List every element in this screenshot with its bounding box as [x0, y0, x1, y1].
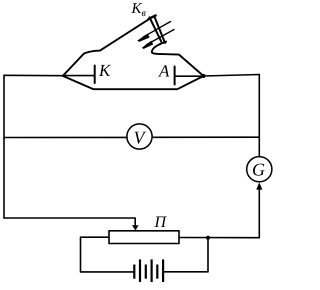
phototube envelope top-left edge	[63, 19, 149, 75]
battery plate tall 1	[139, 259, 141, 282]
electrode A lead	[175, 75, 203, 77]
wire battery left loop	[81, 237, 134, 272]
wire right vertical upper	[258, 75, 260, 157]
electrode K lead	[64, 75, 94, 77]
battery plate short 1	[133, 265, 135, 279]
svg-text:Кв: Кв	[131, 1, 147, 19]
voltmeter V circle	[127, 124, 152, 149]
junction dot bottom-right	[206, 236, 210, 240]
light ray arrowhead 2	[142, 41, 153, 49]
battery plate tall 3	[162, 259, 164, 282]
potentiometer body rectangle	[109, 231, 179, 244]
wire battery right riser	[165, 238, 209, 272]
light ray 1 shaft	[143, 22, 171, 38]
wire voltmeter left	[4, 136, 127, 138]
svg-text:К: К	[98, 61, 112, 80]
wire voltmeter right	[152, 136, 259, 138]
electrode K bar	[94, 66, 96, 84]
svg-text:V: V	[134, 127, 147, 147]
wire right vertical lower (G to bottom corner)	[179, 188, 259, 238]
quartz window bottom cap	[160, 42, 166, 44]
svg-text:П: П	[154, 214, 168, 231]
junction dot at anode point	[202, 74, 206, 78]
galvanometer G circle	[247, 157, 272, 182]
electrode A bar	[174, 67, 176, 85]
svg-text:G: G	[252, 160, 265, 180]
battery plate tall 2	[151, 259, 153, 282]
phototube envelope bottom edge	[63, 76, 204, 89]
quartz window slab left line	[150, 17, 162, 41]
wire left vertical	[3, 75, 5, 218]
light ray arrowhead 1	[137, 34, 150, 42]
wire bottom-left horizontal to wiper	[4, 218, 135, 226]
G arrowhead (up)	[256, 182, 262, 189]
wire top-right horizontal	[204, 75, 260, 77]
battery plate short 3	[156, 265, 158, 279]
svg-text:А: А	[158, 62, 170, 81]
quartz window slab right line	[155, 17, 166, 43]
wiper arrowhead (down)	[132, 225, 139, 230]
battery plate short 2	[145, 265, 147, 279]
quartz window top cap	[149, 16, 156, 19]
light ray 2 shaft	[147, 30, 175, 45]
wire top-left horizontal	[4, 74, 63, 76]
phototube envelope neck (right of window)	[152, 44, 204, 76]
